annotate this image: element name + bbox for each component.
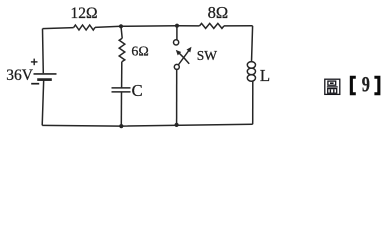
switch SW top terminal bbox=[174, 40, 179, 45]
switch SW blade arrow bbox=[178, 47, 191, 65]
capacitor C top plate bbox=[112, 87, 131, 89]
wire right upper bbox=[252, 26, 253, 62]
wire switch stub upper bbox=[176, 26, 178, 40]
resistor 12ohm zigzag bbox=[74, 25, 95, 30]
node junction dot bottom middle bbox=[119, 124, 123, 128]
node junction dot top middle bbox=[119, 24, 123, 28]
wire left lower bbox=[42, 80, 44, 126]
battery minus sign bbox=[31, 83, 39, 85]
svg-text:36V: 36V bbox=[6, 67, 34, 84]
wire switch stub lower bbox=[176, 69, 178, 125]
battery 36V negative plate bbox=[37, 78, 52, 81]
node junction dot bottom switch bbox=[175, 123, 179, 127]
capacitor C bottom plate bbox=[112, 91, 131, 93]
wire top middle segment bbox=[95, 26, 200, 28]
svg-text:8Ω: 8Ω bbox=[208, 3, 229, 22]
wire right lower bbox=[252, 81, 254, 124]
wire middle branch between resistor and capacitor bbox=[121, 62, 123, 88]
figure caption character tu (picture) bbox=[325, 79, 340, 94]
wire middle branch upper bbox=[121, 26, 122, 38]
wire top-right segment bbox=[224, 25, 253, 27]
figure caption right lenticular bracket bbox=[374, 76, 380, 95]
svg-text:6Ω: 6Ω bbox=[131, 45, 148, 60]
switch SW bottom terminal bbox=[174, 64, 179, 69]
figure caption left lenticular bracket bbox=[350, 76, 356, 95]
wire top-left segment bbox=[43, 28, 74, 29]
inductor L coil bbox=[247, 62, 255, 82]
battery 36V positive plate bbox=[34, 73, 57, 75]
battery plus sign bbox=[31, 59, 38, 66]
svg-text:C: C bbox=[132, 81, 143, 100]
node junction dot top switch bbox=[175, 24, 179, 28]
resistor 6ohm zigzag bbox=[119, 38, 125, 62]
svg-text:12Ω: 12Ω bbox=[71, 5, 98, 22]
svg-text:SW: SW bbox=[197, 48, 218, 63]
svg-text:9: 9 bbox=[362, 73, 370, 97]
wire left upper (to battery) bbox=[42, 29, 45, 74]
svg-text:L: L bbox=[260, 66, 270, 85]
wire bottom bbox=[42, 124, 253, 126]
resistor 8ohm zigzag bbox=[200, 23, 225, 28]
wire middle branch lower bbox=[120, 92, 122, 126]
switch SW motion arrow bbox=[176, 50, 189, 64]
